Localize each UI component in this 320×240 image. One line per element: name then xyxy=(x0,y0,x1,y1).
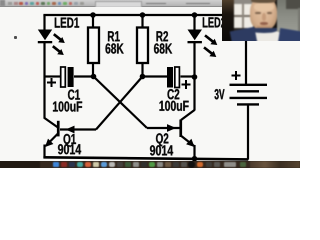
wire R1 top lead xyxy=(92,15,94,28)
resistor R2 body xyxy=(137,28,148,64)
LED2 label xyxy=(203,17,226,27)
wire cross-couple C1 node to Q2 base xyxy=(94,77,148,129)
LED1 cathode bar xyxy=(38,41,52,43)
wire Q2 base horizontal xyxy=(147,127,180,129)
wire Q1 emitter lead xyxy=(46,134,58,146)
transistor Q2 emitter arrowhead xyxy=(186,139,194,147)
wire Q2 emitter to ground rail xyxy=(193,145,195,159)
wire R1 bottom lead xyxy=(92,63,94,77)
capacitor C2 negative plate (hollow) xyxy=(175,67,180,88)
capacitor C2 positive plate (filled) xyxy=(167,67,173,88)
capacitor C1 positive plate (filled) xyxy=(68,67,74,87)
capacitor C1 label xyxy=(68,90,80,100)
resistor R1 body xyxy=(88,28,99,64)
LED1 emission arrow 1 xyxy=(54,34,65,43)
LED2 emission arrow 2 xyxy=(204,47,216,57)
wire R2 bottom lead xyxy=(141,63,143,77)
junction Q2 emitter ground node xyxy=(192,156,198,162)
LED2 emission arrow 1 xyxy=(205,35,217,45)
battery BT1 short plate 1 xyxy=(237,90,259,92)
wire C1 right lead xyxy=(74,75,94,77)
capacitor C2 value 100uF xyxy=(160,101,189,111)
capacitor C1 plus sign xyxy=(47,78,56,87)
wire battery bottom lead xyxy=(247,104,249,160)
LED2 cathode bar xyxy=(188,41,202,43)
wire LED2 branch upper xyxy=(193,15,195,30)
mouse cursor speck xyxy=(14,36,17,39)
transistor Q2 part number 9014 xyxy=(150,145,173,155)
wire LED2 cathode to C2 tap to Q2 collector xyxy=(193,43,195,111)
wire bottom rail xyxy=(43,157,248,159)
resistor R1 label xyxy=(108,31,120,41)
transistor Q1 base bar xyxy=(57,121,60,137)
dock bar xyxy=(0,161,300,168)
LED2 D2 diode triangle xyxy=(188,30,203,41)
wire R2 top lead xyxy=(141,15,143,28)
resistor R2 label xyxy=(157,31,169,41)
wire Q2 emitter lead xyxy=(181,136,194,146)
resistor R2 value 68K xyxy=(154,43,172,53)
transistor Q1 base arrowhead xyxy=(66,126,75,134)
junction LED2 top node xyxy=(192,12,198,18)
LED1 label xyxy=(55,18,79,28)
junction R2 top node xyxy=(140,12,146,18)
battery BT1 short plate 2 xyxy=(237,103,259,105)
transistor Q1 part number 9014 xyxy=(58,144,81,154)
transistor Q1 emitter arrowhead xyxy=(45,139,53,147)
head xyxy=(250,0,277,30)
wire C2 left lead xyxy=(143,75,168,77)
battery BT1 long plate 1 xyxy=(230,84,268,86)
wire C1 left lead xyxy=(45,75,61,77)
LED1 D1 diode triangle xyxy=(38,30,52,41)
junction R1 top node xyxy=(90,12,96,18)
junction C2-R2-Q1base node xyxy=(140,74,146,80)
battery BT1 value 3V xyxy=(215,89,225,99)
app toolbar xyxy=(0,0,300,7)
junction C2-LED2 node xyxy=(192,74,198,80)
wire battery top lead xyxy=(245,15,247,85)
wire left branch mid (LED1 cathode to C1 tap to Q1 collector) xyxy=(43,43,45,119)
battery BT1 long plate 2 xyxy=(230,97,268,99)
circuit schematic xyxy=(0,0,300,168)
transistor Q2 base bar xyxy=(179,120,182,138)
wire left branch upper (LED1 anode) xyxy=(43,15,45,30)
capacitor C2 plus sign xyxy=(182,80,191,89)
wire C2 right lead xyxy=(181,75,195,77)
transistor Q1 label xyxy=(64,134,77,147)
capacitor C1 value 100uF xyxy=(53,101,82,111)
battery BT1 plus sign xyxy=(232,71,241,80)
wire Q1 base horizontal xyxy=(60,128,96,130)
wire Q1 emitter to ground rail xyxy=(43,145,45,159)
neck & shirt xyxy=(257,26,271,35)
wire Q2 collector lead xyxy=(181,110,195,120)
wire cross-couple C2 node to Q1 base xyxy=(96,77,143,130)
webcam overlay xyxy=(222,0,301,41)
wire Q1 collector lead xyxy=(45,118,59,128)
transistor Q2 base arrowhead xyxy=(167,124,176,132)
resistor R1 value 68K xyxy=(106,43,124,53)
wire top rail xyxy=(43,14,248,16)
LED1 emission arrow 2 xyxy=(53,46,64,55)
junction C1-R1-Q2base node xyxy=(91,74,97,80)
capacitor C2 label xyxy=(168,89,180,99)
capacitor C1 negative plate (hollow) xyxy=(61,67,66,87)
transistor Q2 label xyxy=(156,133,168,146)
